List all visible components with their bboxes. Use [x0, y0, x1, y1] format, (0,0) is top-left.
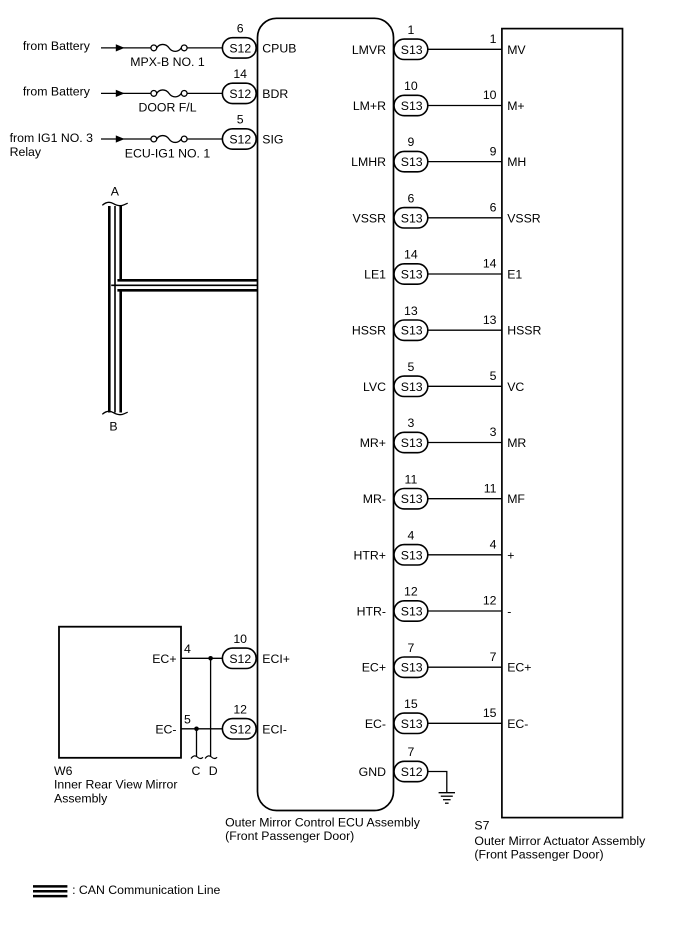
svg-text:HSSR: HSSR [352, 324, 386, 338]
svg-text:LMVR: LMVR [352, 43, 386, 57]
svg-text:MV: MV [507, 43, 526, 57]
connector S12 pin 6 [222, 38, 256, 58]
connector S13 pin 5 (LVC) [394, 376, 428, 396]
svg-text:Assembly: Assembly [54, 791, 108, 805]
svg-text:S12: S12 [229, 722, 251, 736]
wire from source to fuse row 1 [101, 47, 151, 49]
wire LVC to actuator [428, 385, 502, 387]
junction dot on EC+ wire [208, 656, 213, 661]
svg-text:14: 14 [233, 67, 247, 81]
connector S13 pin 9 (LMHR) [394, 151, 428, 171]
wire W6 EC+ to connector [181, 657, 224, 659]
wire D vertical [210, 658, 212, 756]
connector S13 pin 3 (MR+) [394, 432, 428, 452]
break symbol C [191, 756, 203, 759]
wire LE1 to actuator [428, 273, 502, 275]
CAN bus vertical line right lower (thick) [119, 292, 122, 413]
wire MR+ to actuator [428, 442, 502, 444]
svg-text:11: 11 [484, 481, 497, 495]
connector S13 pin 4 (HTR+) [394, 545, 428, 565]
legend CAN line symbol [33, 885, 67, 888]
svg-text:S12: S12 [401, 765, 423, 779]
svg-text:MR+: MR+ [360, 436, 386, 450]
svg-text:14: 14 [404, 248, 418, 262]
wire HTR+ to actuator [428, 554, 502, 556]
svg-text:BDR: BDR [262, 87, 288, 101]
svg-text:ECU-IG1 NO. 1: ECU-IG1 NO. 1 [125, 146, 211, 160]
junction dot on EC- wire [194, 727, 199, 732]
svg-text:S13: S13 [401, 43, 423, 57]
svg-text:CPUB: CPUB [262, 41, 296, 55]
svg-text:12: 12 [233, 702, 247, 716]
svg-text:LMHR: LMHR [351, 155, 386, 169]
svg-text:10: 10 [483, 88, 497, 102]
svg-text:13: 13 [404, 304, 418, 318]
ECU box: Outer Mirror Control ECU Assembly [258, 18, 394, 810]
svg-text:+: + [507, 548, 514, 562]
arrow on wire row 1 [116, 44, 125, 51]
svg-text:S12: S12 [229, 133, 251, 147]
svg-text:W6: W6 [54, 764, 73, 778]
connector S12 pin 7 (GND) [394, 761, 428, 781]
wire fuse to connector row 3 [187, 138, 224, 140]
CAN bus vertical line right upper (thick) [119, 206, 122, 279]
CAN bus vertical line left (thick) [108, 206, 111, 413]
wire W6 EC- to connector [181, 728, 224, 730]
svg-text:VC: VC [507, 380, 524, 394]
svg-text:M+: M+ [507, 99, 524, 113]
svg-text:5: 5 [184, 712, 191, 726]
svg-text:EC-: EC- [155, 722, 176, 736]
wire LM+R to actuator [428, 105, 502, 107]
svg-text:MH: MH [507, 155, 526, 169]
ground symbol [439, 792, 455, 794]
fuse MPX-B NO. 1 [151, 45, 157, 51]
svg-text:S13: S13 [401, 268, 423, 282]
svg-text:9: 9 [490, 144, 497, 158]
CAN branch horizontal top (thick) [117, 279, 257, 282]
svg-text:DOOR F/L: DOOR F/L [138, 101, 196, 115]
CAN bus break symbol top (A) [102, 202, 127, 205]
connector S13 pin 1 (LMVR) [394, 39, 428, 59]
svg-text:4: 4 [184, 642, 191, 656]
svg-text:D: D [209, 764, 218, 778]
svg-text:HSSR: HSSR [507, 324, 541, 338]
svg-text:SIG: SIG [262, 133, 283, 147]
svg-text:15: 15 [404, 697, 418, 711]
svg-text:Inner Rear View Mirror: Inner Rear View Mirror [54, 778, 177, 792]
wire GND to ground [428, 772, 447, 793]
connector S12 pin 5 [222, 129, 256, 149]
svg-text:5: 5 [490, 369, 497, 383]
svg-text:MPX-B NO. 1: MPX-B NO. 1 [130, 55, 205, 69]
svg-text:1: 1 [407, 23, 414, 37]
arrow on wire row 2 [116, 90, 125, 97]
connector S13 pin 14 (LE1) [394, 264, 428, 284]
wire from source to fuse row 3 [101, 138, 151, 140]
svg-text:MR-: MR- [363, 492, 386, 506]
svg-text:3: 3 [490, 425, 497, 439]
break symbol D [205, 756, 217, 759]
svg-text:HTR-: HTR- [357, 605, 386, 619]
actuator box S7: Outer Mirror Actuator Assembly [502, 29, 623, 818]
connector S12 pin 14 [222, 83, 256, 103]
connector S13 pin 10 (LM+R) [394, 95, 428, 115]
svg-text:S13: S13 [401, 436, 423, 450]
wire LMHR to actuator [428, 161, 502, 163]
svg-text:C: C [192, 764, 201, 778]
svg-text:: CAN Communication Line: : CAN Communication Line [72, 883, 220, 897]
svg-text:Outer Mirror Control ECU Assem: Outer Mirror Control ECU Assembly [225, 815, 421, 829]
svg-text:LE1: LE1 [364, 268, 386, 282]
svg-text:Relay: Relay [10, 145, 42, 159]
wire EC+ to actuator [428, 666, 502, 668]
svg-text:EC-: EC- [507, 717, 528, 731]
connector S13 pin 12 (HTR-) [394, 601, 428, 621]
svg-text:S12: S12 [229, 41, 251, 55]
svg-text:6: 6 [490, 201, 497, 215]
svg-text:S12: S12 [229, 652, 251, 666]
svg-text:4: 4 [407, 528, 414, 542]
wire fuse to connector row 2 [187, 92, 224, 94]
svg-text:5: 5 [407, 360, 414, 374]
wire HSSR to actuator [428, 329, 502, 331]
svg-text:6: 6 [407, 191, 414, 205]
svg-text:GND: GND [359, 765, 386, 779]
svg-text:EC+: EC+ [152, 652, 176, 666]
svg-text:from IG1 NO. 3: from IG1 NO. 3 [10, 131, 94, 145]
CAN branch horizontal bottom (thick) [117, 289, 257, 292]
svg-text:E1: E1 [507, 268, 522, 282]
svg-text:B: B [109, 420, 117, 434]
svg-text:S13: S13 [401, 380, 423, 394]
svg-text:S13: S13 [401, 324, 423, 338]
svg-text:VSSR: VSSR [507, 211, 541, 225]
wire HTR- to actuator [428, 610, 502, 612]
svg-text:10: 10 [404, 79, 418, 93]
W6 box: Inner Rear View Mirror Assembly [59, 627, 181, 758]
svg-text:ECI-: ECI- [262, 722, 287, 736]
CAN bus vertical line middle (thin) [114, 206, 116, 413]
connector S13 pin 15 (EC-) [394, 713, 428, 733]
svg-text:6: 6 [237, 22, 244, 36]
CAN branch horizontal middle (thin) [111, 284, 257, 286]
svg-text:1: 1 [490, 32, 497, 46]
svg-text:ECI+: ECI+ [262, 652, 290, 666]
svg-text:7: 7 [490, 650, 497, 664]
CAN bus break symbol bottom (B) [102, 411, 127, 414]
svg-text:HTR+: HTR+ [354, 548, 386, 562]
svg-text:9: 9 [407, 135, 414, 149]
svg-text:S12: S12 [229, 87, 251, 101]
svg-text:(Front Passenger Door): (Front Passenger Door) [474, 848, 603, 862]
svg-text:14: 14 [483, 257, 497, 271]
connector S13 pin 7 (EC+) [394, 657, 428, 677]
wire EC- to actuator [428, 722, 502, 724]
svg-text:12: 12 [404, 585, 418, 599]
svg-text:(Front Passenger Door): (Front Passenger Door) [225, 829, 354, 843]
svg-text:-: - [507, 605, 511, 619]
arrow on wire row 3 [116, 135, 125, 142]
fuse DOOR F/L [151, 91, 157, 97]
svg-text:from Battery: from Battery [23, 85, 91, 99]
connector S12 pin 12 (ECI-) [222, 719, 256, 739]
svg-text:MR: MR [507, 436, 526, 450]
svg-text:S13: S13 [401, 492, 423, 506]
svg-text:EC+: EC+ [362, 661, 386, 675]
wire fuse to connector row 1 [187, 47, 224, 49]
svg-text:LM+R: LM+R [353, 99, 386, 113]
svg-text:LVC: LVC [363, 380, 386, 394]
fuse ECU-IG1 NO. 1 [151, 136, 157, 142]
svg-text:S13: S13 [401, 661, 423, 675]
wire VSSR to actuator [428, 217, 502, 219]
connector S12 pin 10 (ECI+) [222, 648, 256, 668]
connector S13 pin 13 (HSSR) [394, 320, 428, 340]
svg-text:A: A [111, 185, 120, 199]
svg-text:S13: S13 [401, 99, 423, 113]
svg-text:13: 13 [483, 313, 497, 327]
connector S13 pin 6 (VSSR) [394, 208, 428, 228]
connector S13 pin 11 (MR-) [394, 489, 428, 509]
svg-text:Outer Mirror Actuator Assembly: Outer Mirror Actuator Assembly [474, 834, 646, 848]
wire C vertical [196, 729, 198, 757]
svg-text:S13: S13 [401, 605, 423, 619]
svg-text:10: 10 [233, 632, 247, 646]
svg-text:7: 7 [407, 641, 414, 655]
svg-text:S13: S13 [401, 548, 423, 562]
svg-text:S7: S7 [474, 819, 489, 833]
wire from source to fuse row 2 [101, 92, 151, 94]
svg-text:VSSR: VSSR [353, 211, 387, 225]
svg-text:7: 7 [407, 745, 414, 759]
svg-text:S13: S13 [401, 211, 423, 225]
svg-text:EC-: EC- [365, 717, 386, 731]
svg-text:4: 4 [490, 538, 497, 552]
svg-text:11: 11 [405, 472, 418, 486]
svg-text:from Battery: from Battery [23, 39, 91, 53]
svg-text:S13: S13 [401, 717, 423, 731]
svg-text:MF: MF [507, 492, 525, 506]
svg-text:3: 3 [407, 416, 414, 430]
svg-text:EC+: EC+ [507, 661, 531, 675]
wire MR- to actuator [428, 498, 502, 500]
svg-text:S13: S13 [401, 155, 423, 169]
svg-text:15: 15 [483, 706, 497, 720]
svg-text:5: 5 [237, 113, 244, 127]
svg-text:12: 12 [483, 594, 497, 608]
wire LMVR to actuator [428, 48, 502, 50]
